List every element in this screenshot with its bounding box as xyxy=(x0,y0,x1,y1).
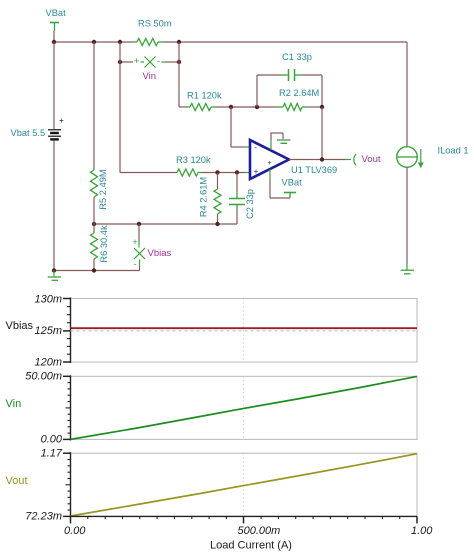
svg-text:72.23m: 72.23m xyxy=(25,510,62,522)
wire Vin left tap vertical xyxy=(119,42,121,173)
resistor R2 2.64M xyxy=(278,88,324,111)
svg-text:1.00: 1.00 xyxy=(411,525,433,537)
svg-text:Vbias: Vbias xyxy=(148,248,172,259)
current source ILoad 1 xyxy=(397,145,469,168)
svg-text:0.00: 0.00 xyxy=(41,434,63,446)
svg-text:Vout: Vout xyxy=(6,475,28,487)
battery Vbat 5.5 xyxy=(11,42,65,271)
wire inverting node xyxy=(216,105,278,109)
svg-text:125m: 125m xyxy=(34,325,62,337)
wire Vin right tap vertical xyxy=(178,42,180,107)
wire top rail left xyxy=(52,31,133,44)
power tag VBat op-amp xyxy=(282,177,303,196)
svg-text:50.00m: 50.00m xyxy=(25,371,62,383)
wire bias rail xyxy=(92,222,237,226)
svg-text:120m: 120m xyxy=(34,356,62,368)
op-amp U1 TLV369 xyxy=(250,140,337,179)
svg-text:RS 50m: RS 50m xyxy=(138,18,172,28)
svg-text:Vout: Vout xyxy=(362,154,381,165)
wire feedback to output xyxy=(321,107,323,160)
svg-text:130m: 130m xyxy=(34,293,62,305)
svg-text:+: + xyxy=(254,166,259,176)
svg-text:Vbat 5.5: Vbat 5.5 xyxy=(11,128,46,138)
wire ground rail xyxy=(54,268,140,272)
svg-text:Vin: Vin xyxy=(143,71,157,82)
wire inverting input xyxy=(231,107,250,147)
svg-text:R1 120k: R1 120k xyxy=(187,90,222,100)
svg-text:-: - xyxy=(133,259,136,270)
svg-text:R6 30.4k: R6 30.4k xyxy=(99,225,109,263)
ground left xyxy=(48,268,61,280)
wire non-inverting node xyxy=(202,170,250,174)
wire top rail right xyxy=(164,40,407,44)
svg-text:C1 33p: C1 33p xyxy=(282,52,312,62)
svg-text:+: + xyxy=(59,116,64,125)
plot panel Vout xyxy=(25,448,417,523)
svg-text:R3 120k: R3 120k xyxy=(176,155,211,165)
svg-text:U1 TLV369: U1 TLV369 xyxy=(291,165,337,175)
op-amp positive supply pin xyxy=(270,133,283,150)
capacitor C1 33p xyxy=(257,52,322,107)
voltage probe Vbias xyxy=(132,224,171,271)
svg-text:+: + xyxy=(267,160,271,167)
svg-text:Vin: Vin xyxy=(6,398,22,410)
svg-text:0.00: 0.00 xyxy=(64,525,86,537)
svg-text:VBat: VBat xyxy=(282,177,303,187)
trace Vout xyxy=(6,454,418,516)
trace Vbias xyxy=(6,320,418,332)
resistor R1 120k xyxy=(179,90,222,110)
svg-text:R2 2.64M: R2 2.64M xyxy=(279,88,319,98)
voltage probe Vin xyxy=(118,56,181,82)
svg-text:1.17: 1.17 xyxy=(41,448,63,460)
capacitor C2 33p xyxy=(229,173,255,225)
resistor R4 2.61M xyxy=(198,173,221,225)
trace Vin xyxy=(6,376,418,439)
op-amp negative supply pin xyxy=(270,169,290,198)
svg-text:-: - xyxy=(254,142,257,152)
svg-text:-: - xyxy=(157,56,160,67)
svg-text:+: + xyxy=(132,237,138,248)
wire ILoad branch xyxy=(406,42,408,147)
svg-text:Vbias: Vbias xyxy=(6,320,34,332)
svg-text:R4 2.61M: R4 2.61M xyxy=(198,177,208,217)
ground op-amp supply xyxy=(277,140,291,143)
svg-text:500.00m: 500.00m xyxy=(238,525,281,537)
plot panel Vbias xyxy=(34,293,417,368)
x axis xyxy=(64,516,433,537)
output pin Vout xyxy=(354,154,381,165)
svg-text:Load Current (A): Load Current (A) xyxy=(210,539,292,551)
wire ILoad to ground xyxy=(406,167,408,264)
resistor R5 2.49M xyxy=(91,42,108,224)
wire output xyxy=(289,157,351,161)
resistor R3 120k xyxy=(120,155,211,176)
plot panel Vin xyxy=(25,371,417,446)
power tag VBat xyxy=(46,8,67,31)
x axis title xyxy=(210,539,292,551)
svg-text:+: + xyxy=(134,56,140,67)
ground ILoad xyxy=(401,264,414,274)
svg-text:VBat: VBat xyxy=(46,8,67,18)
svg-text:C2 33p: C2 33p xyxy=(245,189,255,219)
resistor R6 30.4k xyxy=(91,224,109,271)
svg-text:ILoad 1: ILoad 1 xyxy=(438,145,469,155)
svg-text:R5 2.49M: R5 2.49M xyxy=(98,169,108,209)
resistor RS 50m xyxy=(133,18,172,45)
